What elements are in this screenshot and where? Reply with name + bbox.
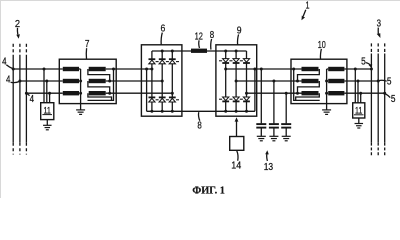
svg-text:14: 14 [231,160,241,172]
svg-text:8: 8 [197,120,202,132]
svg-text:4: 4 [30,94,35,105]
svg-text:4: 4 [2,57,7,68]
svg-text:9: 9 [237,25,242,37]
svg-text:7: 7 [85,38,90,50]
svg-text:6: 6 [161,23,166,35]
svg-text:ФИГ. 1: ФИГ. 1 [192,186,225,197]
svg-text:5: 5 [361,56,366,67]
svg-text:4: 4 [6,75,11,86]
svg-text:13: 13 [264,161,274,173]
svg-text:5: 5 [387,77,392,88]
svg-text:5: 5 [391,94,396,105]
